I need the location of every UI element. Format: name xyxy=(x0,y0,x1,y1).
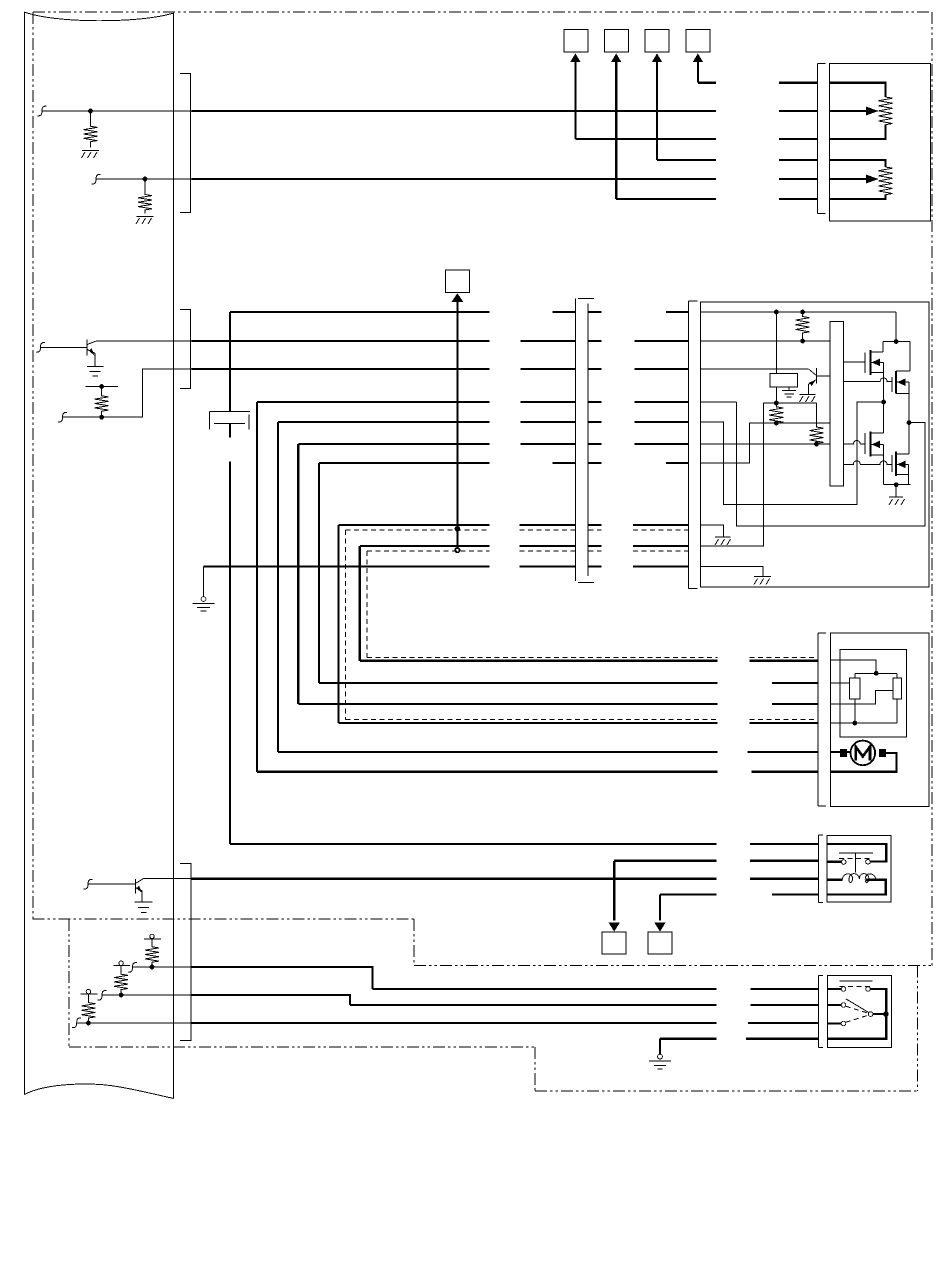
pull-up resistor chain 2 xyxy=(114,966,128,995)
row1 vertical drop to capacitor and lower run xyxy=(229,312,231,844)
transistor Q1 emitter arrowhead xyxy=(809,380,816,386)
harness boundary chain line (lower-left horizontal) xyxy=(33,918,415,920)
resistor R2 (Q2 bias) xyxy=(95,387,109,418)
M2 gate wire from IC with hop xyxy=(843,378,892,381)
bridge ground vertical xyxy=(895,485,897,497)
pull-up resistor chain 1 xyxy=(145,939,159,967)
relay square S4 xyxy=(686,30,710,53)
driver IC block xyxy=(830,321,843,486)
wire to S1 (vertical with arrow) xyxy=(575,61,817,139)
transistor Q2 collector diagonal xyxy=(87,341,96,344)
row5 wire (harness top run) xyxy=(278,421,688,423)
throttle motor right terminal pad xyxy=(879,749,886,757)
row1 wire inside module xyxy=(701,312,897,342)
row10 drop to body ground xyxy=(203,567,205,597)
sensor supply wire inside (row A) xyxy=(830,660,876,673)
junction dot at (776.3,423) xyxy=(774,421,779,426)
A/T module row4 rail from coil xyxy=(827,880,886,895)
MOSFET M3 source lead with body arrow xyxy=(871,443,884,445)
ground for W1 resistor (bar and hatches) xyxy=(82,151,100,159)
throttle body box xyxy=(830,633,929,807)
relay square S3 xyxy=(645,30,669,53)
lower harness region chain line (y=1046.8 horizontal) xyxy=(69,1046,535,1048)
wire W2 thin segment inside ECM with pigtail xyxy=(92,174,192,184)
harness boundary chain line (right) xyxy=(931,12,933,966)
inline connector bar C101 top tab xyxy=(578,298,594,300)
ground for Q3 emitter (3 bars) xyxy=(135,902,153,913)
junction dot top rail xyxy=(894,339,899,344)
transistor Q3 emitter arrowhead xyxy=(137,886,143,893)
ground for row8 shield (bar and hatches) xyxy=(715,537,731,545)
arrowhead into square S6 xyxy=(654,923,665,932)
wiper 2 wire (row C) xyxy=(830,690,893,704)
MOSFET M4 body arrowhead xyxy=(897,461,906,469)
shielded cable A solid conductor (left vertical and bottom run) xyxy=(339,525,819,723)
lower harness region chain line (right vertical) xyxy=(917,966,919,1092)
transistor Q3 emitter diagonal with arrow xyxy=(135,888,142,902)
junction dot on wire W2 xyxy=(143,177,148,182)
bottom row wire 3 inside ECM with pigtail xyxy=(72,1018,191,1028)
relay square S6 xyxy=(648,932,672,954)
A/T module feed row2 wire with drop to S5 xyxy=(614,861,818,921)
A/T module row3 wire xyxy=(827,879,842,881)
wire W2 harness segment to heater module xyxy=(192,178,818,180)
MOSFET M1 gate bar xyxy=(864,353,866,373)
MOSFET M2 source lead with body arrow xyxy=(896,381,909,383)
row4 bottom run to throttle body xyxy=(257,771,818,773)
gear switch common link to rail xyxy=(873,1013,884,1015)
transistor Q2 emitter diagonal with arrow xyxy=(87,350,95,366)
pull-up chain 3 terminal circle and bar xyxy=(86,989,90,993)
junction dot on gear switch rail xyxy=(883,1011,889,1017)
transistor Q2 in ECM: base bar xyxy=(86,340,88,356)
MOSFET M3 gate bar xyxy=(864,433,866,454)
inline connector bar C101 (right vertical) xyxy=(587,303,589,576)
wire to S3 (vertical with arrow) xyxy=(657,61,817,160)
M3 gate wire from IC with hop xyxy=(843,441,865,445)
A/T switch actuating stem xyxy=(854,853,856,873)
gear switch dashed arm from contact 2 xyxy=(846,1006,868,1013)
row6 bottom run to throttle body xyxy=(298,703,818,705)
junction dot on wire W1 xyxy=(88,109,93,114)
junction dot bridge bottom xyxy=(894,482,899,487)
ground for Q1 (bar and hatches) xyxy=(800,394,816,402)
pull-up chain 1 terminal circle and bar xyxy=(150,934,154,938)
MOSFET M1 body arrowhead xyxy=(872,359,881,367)
row2 wire (harness) xyxy=(192,340,689,342)
shielded cable A shield (dashed) xyxy=(346,530,819,720)
pull-down resistor under wire W1 xyxy=(84,111,98,148)
top rail to MOSFET drains xyxy=(883,342,910,372)
gear switch contact 1b xyxy=(866,987,871,992)
throttle motor letter M xyxy=(856,747,870,761)
junction dot node B xyxy=(907,420,912,425)
ECM box bottom break wave xyxy=(25,1084,174,1098)
row3 wire inside module xyxy=(701,368,809,370)
MOSFET M3 channel bar xyxy=(870,431,872,456)
relay feed vertical from row1 xyxy=(775,312,777,373)
MOSFET M2 channel bar xyxy=(895,371,897,393)
transistor Q3 base wire with pigtail xyxy=(84,879,136,889)
row9 feedback loop to resistor R5 xyxy=(701,403,817,546)
gear switch row3 wire xyxy=(828,1022,842,1024)
body ground symbol (bars) xyxy=(193,603,215,611)
gear switch row2 wire xyxy=(828,1004,842,1006)
gear switch contact 1a xyxy=(841,987,846,992)
capacitor C1 top plate xyxy=(209,411,250,413)
gear switch top bar xyxy=(839,980,872,982)
row3 wire (harness) xyxy=(192,368,689,370)
resistor R5 to row6 xyxy=(810,403,824,444)
MOSFET M4 bottom lead xyxy=(896,474,909,476)
check connector drop wire (vertical) xyxy=(456,301,458,548)
arrowhead into S1 xyxy=(570,54,580,63)
gear switch common contact xyxy=(868,1012,873,1017)
wire W1 arrowhead into heater element 1 xyxy=(866,107,879,116)
gear switch ground symbol (bars) xyxy=(649,1061,671,1069)
M3 source vertical to bottom node xyxy=(883,444,885,484)
throttle position sensor inner box xyxy=(840,650,906,738)
MOSFET M4 source lead with body arrow xyxy=(896,463,909,465)
MOSFET M1 drain lead xyxy=(871,351,883,353)
ground for Q2 emitter (3 bars) xyxy=(87,366,104,376)
ground for W2 resistor (bar and hatches) xyxy=(136,217,154,225)
junction dot chain 1 xyxy=(150,965,155,970)
MOSFET M4 drain lead xyxy=(896,453,909,455)
inline connector bar C102 bottom tab xyxy=(688,588,697,590)
row7 wire (harness top run) xyxy=(319,462,688,464)
row2 wire thin segment from Q2 collector xyxy=(96,340,192,342)
transistor Q1 base bar xyxy=(815,368,817,384)
harness boundary chain line (y=964 horizontal) xyxy=(414,965,932,967)
MOSFET M1 channel bar xyxy=(870,350,872,375)
row5 loop to node A xyxy=(701,402,884,505)
MOSFET M1 source lead with body arrow xyxy=(871,361,884,363)
node A vertical to M3 drain xyxy=(883,402,885,433)
row4 left vertical xyxy=(256,402,258,772)
A/T module feed row4 wire with drop to S6 xyxy=(660,895,818,921)
terminal ring at bottom of check wire xyxy=(455,548,459,552)
row2 wire inside module to IC xyxy=(701,340,831,342)
row6 wire inside module to IC xyxy=(701,443,831,445)
junction dot on sensor ground rail xyxy=(852,721,857,726)
arrowhead into square S5 xyxy=(609,923,620,932)
thin collector segment from Q3 to connector xyxy=(143,878,191,880)
row8 shield termination inside module xyxy=(701,525,724,537)
M1 source vertical to output node A xyxy=(883,362,885,402)
ECM connector bracket B3 (bottom) xyxy=(180,864,191,1041)
bottom row wire 2 inside ECM with pigtail xyxy=(98,990,192,1000)
wire W1 harness segment to heater module xyxy=(192,110,818,112)
MOSFET M2 drain lead xyxy=(896,370,910,372)
transistor Q3 in ECM (bottom): base bar xyxy=(134,879,136,894)
wire W2 arrowhead into heater element 2 xyxy=(866,175,879,184)
bottom wire T2 with step xyxy=(192,995,819,1005)
MOSFET M2 gate bar xyxy=(891,377,893,392)
A/T module row2 wire xyxy=(827,861,841,863)
engine compartment harness boundary chain line (top) xyxy=(33,11,932,13)
junction dot chain 3 xyxy=(86,1021,91,1026)
row6 wire (harness top run) xyxy=(298,443,688,445)
gear switch ground symbol (ring) xyxy=(658,1054,663,1059)
MOSFET M3 bottom lead xyxy=(871,454,884,456)
heater element 2 supply wire inside box xyxy=(830,160,886,167)
junction dot R5 bottom on row6 xyxy=(814,442,819,447)
A/T solenoid coil xyxy=(842,874,875,883)
lower harness region chain line (left vertical x=69) xyxy=(68,919,70,1047)
wire W1 thin segment inside ECM with pigtail xyxy=(38,106,192,116)
bottom row wire 1 inside ECM with pigtail xyxy=(128,963,192,973)
check connector square xyxy=(445,270,469,292)
capacitor C1 case brackets xyxy=(209,412,249,430)
sensor ground rail (row D) xyxy=(830,699,897,723)
A/T module connector bracket xyxy=(818,835,823,902)
harness boundary chain line (step vertical x=414) xyxy=(413,919,415,966)
relay ground bars xyxy=(782,391,796,398)
ECM box top break wave xyxy=(25,12,174,21)
body ground symbol (ring) xyxy=(201,597,206,602)
wire to S2 (vertical with arrow) xyxy=(616,61,817,199)
capacitor C1 bottom plate xyxy=(214,423,245,425)
gear switch contact 3 xyxy=(841,1021,846,1026)
gear switch dashed arm from contact 3 xyxy=(846,1015,868,1022)
lower harness region chain line (bottom) xyxy=(535,1090,918,1092)
throttle actuator control module box xyxy=(701,302,930,587)
junction dot on bias tick xyxy=(99,384,104,389)
row4 wire (harness top run) xyxy=(257,401,688,403)
transistor Q3 collector diagonal xyxy=(135,879,143,884)
potentiometer element P1 xyxy=(850,678,860,699)
bridge bottom node rail xyxy=(884,484,911,486)
relay square S5 xyxy=(602,932,626,954)
gear switch contact 2 xyxy=(841,1003,846,1008)
row10 ground wire inside module xyxy=(701,567,764,577)
pull-down resistor under wire W2 xyxy=(138,179,152,214)
gear switch module connector bracket xyxy=(819,976,824,1048)
row7 left vertical xyxy=(318,463,320,683)
gear switch selector arm (solid) xyxy=(846,999,869,1012)
MOSFET M4 channel bar xyxy=(895,452,897,477)
shielded cable B shield (dashed) xyxy=(367,551,818,658)
inline connector bar C101 (left vertical) xyxy=(575,299,577,582)
transistor Q2 emitter arrowhead xyxy=(89,348,95,356)
junction dot on pot top rail xyxy=(874,671,879,676)
relay square S1 xyxy=(564,30,588,53)
heater element 1 return wire xyxy=(830,125,886,139)
MOSFET M3 drain lead xyxy=(871,432,884,434)
heater element 2 return wire xyxy=(830,195,886,200)
wire W2 drive arrow line inside heater module xyxy=(830,178,867,180)
A/T module feed row3 wire (from Q3) xyxy=(192,878,819,880)
gear switch ground wire xyxy=(660,1039,818,1055)
row7 feedback loop to IC xyxy=(701,423,831,463)
ECM connector bracket B2 (middle) xyxy=(180,310,191,389)
transistor Q1 base lead to IC xyxy=(816,375,830,377)
row3 feed wire with pigtail inside ECM xyxy=(58,369,192,422)
throttle motor body xyxy=(851,741,876,766)
relay ground stub xyxy=(788,387,790,391)
lower harness region chain line (step vertical x=535) xyxy=(534,1047,536,1091)
wire to S4 (vertical with arrow) xyxy=(698,61,817,83)
junction dot R3 bottom on row2 xyxy=(800,339,805,344)
MOSFET M3 body arrowhead xyxy=(872,441,881,449)
bias rail tick above R2 xyxy=(85,386,118,388)
A/T switch contact right xyxy=(866,860,871,865)
throttle motor left terminal pad xyxy=(840,749,847,757)
transistor Q1 emitter with arrow xyxy=(808,380,816,394)
M4 gate wire from IC with hops xyxy=(843,461,892,464)
gear switch module box xyxy=(828,976,892,1048)
A/T module row1 rail xyxy=(827,844,886,861)
throttle motor feed wire (row E) xyxy=(830,751,851,753)
A/T module box xyxy=(827,836,891,902)
heater element 2 resistor xyxy=(879,167,893,195)
bottom wire T3 xyxy=(192,1022,819,1024)
shielded cable B solid conductor (top run) xyxy=(360,545,689,547)
inline connector bar C101 bottom tab xyxy=(578,581,594,583)
relay coil box xyxy=(770,373,798,387)
MOSFET M4 gate bar xyxy=(891,455,893,472)
row7 bottom run to throttle body xyxy=(319,682,818,684)
harness boundary chain line (left) xyxy=(32,12,34,919)
row10 sensor ground wire xyxy=(204,566,689,568)
ECM box right edge xyxy=(173,13,175,1099)
throttle body connector bracket xyxy=(818,633,826,806)
inline connector bar C102 (vertical) xyxy=(687,301,689,589)
A/T switch contact left xyxy=(841,860,846,865)
gear switch dashed bar xyxy=(839,985,872,987)
wire W1 drive arrow line inside heater module xyxy=(830,110,867,112)
junction dot on check wire at shield crossing xyxy=(455,526,461,532)
M1 gate wire from IC xyxy=(843,361,865,363)
junction dot node A xyxy=(881,400,886,405)
heater element 1 supply wire inside box xyxy=(830,83,886,97)
row5 bottom run to throttle body xyxy=(278,751,818,753)
resistor R3 between row1 and row2 xyxy=(796,312,810,341)
throttle motor return loop (row F) xyxy=(830,753,896,772)
bottom wire T1 with step xyxy=(192,967,819,989)
shielded cable B solid conductor (left vertical and bottom run) xyxy=(360,546,818,661)
pull-up resistor chain 3 xyxy=(81,994,95,1023)
MOSFET M2 body arrowhead xyxy=(897,378,906,386)
junction dot row1 at resistor R3 xyxy=(800,310,805,315)
potentiometer element P2 xyxy=(893,678,902,699)
arrowhead into S3 xyxy=(652,54,662,63)
wiper 1 wire (row B) xyxy=(830,682,849,684)
ECM connector bracket B1 (top) xyxy=(180,74,191,213)
junction dot at (776.3,403) xyxy=(774,401,779,406)
M4 source vertical to bottom node xyxy=(908,464,910,484)
heater module connector bracket xyxy=(817,64,825,214)
MOSFET M2 bottom lead xyxy=(896,392,909,394)
junction dot chain 2 xyxy=(119,993,124,998)
potentiometer top rail xyxy=(855,673,897,678)
relay square S2 xyxy=(604,30,628,53)
arrowhead into check connector square xyxy=(452,293,464,302)
row6 left vertical xyxy=(297,444,299,704)
transistor Q1 collector diagonal xyxy=(809,369,817,376)
heater element 1 resistor xyxy=(879,97,893,125)
junction dot row1 at relay feed xyxy=(774,310,779,315)
resistor R4 between feedback dots xyxy=(769,403,783,423)
node B loop to row4 xyxy=(701,402,925,526)
heater module box xyxy=(830,64,931,221)
row1 wire (ECM to driver module) xyxy=(230,311,688,313)
shielded cable A solid conductor (top run) xyxy=(339,524,689,526)
ground for bridge (bar and hatches) xyxy=(889,497,905,505)
arrowhead into S2 xyxy=(611,54,621,63)
A/T module feed row1 wire xyxy=(230,843,818,845)
ECM box left edge xyxy=(24,12,26,1095)
A/T switch bar xyxy=(839,852,873,854)
gear switch row1 rail xyxy=(828,989,887,1039)
A/T switch dashed throw line xyxy=(839,858,873,860)
ground for row10 (bar and hatches) xyxy=(754,577,771,585)
arrowhead into S4 xyxy=(693,54,703,63)
inline connector bar C102 top tab xyxy=(688,300,697,302)
transistor Q2 base wire with pigtail xyxy=(36,343,87,353)
row5 left vertical xyxy=(277,422,279,752)
pull-up chain 2 terminal circle and bar xyxy=(119,961,123,965)
MOSFET M1 bottom lead xyxy=(871,371,884,373)
junction dot on row3 feed wire xyxy=(99,415,104,420)
M2 source vertical to output node B xyxy=(908,382,910,454)
relay output vertical to dot xyxy=(775,387,777,403)
